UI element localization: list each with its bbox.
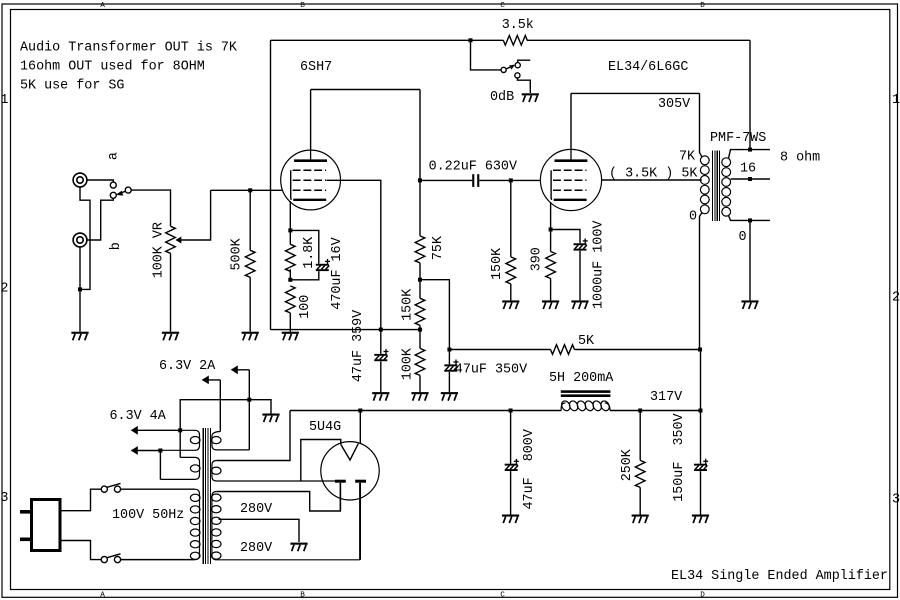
svg-text:C: C <box>500 2 505 10</box>
wire 5V top lead to B+ takeoff <box>217 411 290 461</box>
switch SW2 pole <box>501 67 506 72</box>
wire rail to C7 <box>700 411 702 464</box>
wire 6.3V 4A arrow lead B <box>132 450 161 452</box>
T2 heater 6.3V winding A <box>161 430 200 450</box>
wire rail down to 8ohm tap <box>749 40 751 150</box>
svg-text:47uF 359V: 47uF 359V <box>351 310 366 382</box>
wire C3 to ground <box>448 372 450 392</box>
node 8ohm tap <box>748 148 752 152</box>
wire switch feed <box>471 40 501 70</box>
svg-text:6.3V 4A: 6.3V 4A <box>110 409 167 424</box>
svg-text:100K: 100K <box>401 347 416 380</box>
wire 2A winding return up <box>248 400 250 450</box>
node cathode junction <box>288 228 292 232</box>
wire V2 screen to OPT tap <box>602 179 701 181</box>
svg-text:a: a <box>107 152 122 160</box>
node R3/C1 junction <box>288 278 292 282</box>
V2 envelope <box>540 149 601 210</box>
svg-text:250K: 250K <box>620 448 635 481</box>
T2 heater 6.3V winding B <box>160 457 199 479</box>
V2 grid-side bracket <box>550 170 553 200</box>
wire 6.3V 4A arrow lead A <box>132 429 181 431</box>
ground C6 <box>502 515 519 517</box>
wire throw down to ground <box>517 78 530 93</box>
wire rail to 250K <box>639 411 641 461</box>
wire 150K grid leak top <box>510 180 512 257</box>
switch SW1 pole <box>125 187 131 193</box>
svg-text:470uF 16V: 470uF 16V <box>330 237 345 309</box>
wire J2 shield down <box>79 247 81 332</box>
node C6 junction <box>509 409 513 413</box>
svg-text:0.22uF 630V: 0.22uF 630V <box>429 160 517 175</box>
svg-text:1: 1 <box>892 93 900 108</box>
wire C1 top branch <box>290 230 319 263</box>
node filament common <box>247 398 251 402</box>
svg-text:500K: 500K <box>230 237 245 270</box>
svg-text:1000uF 100V: 1000uF 100V <box>592 221 607 309</box>
switch SW4 contacts <box>101 557 107 563</box>
wire 5V lead to filament left <box>334 480 336 482</box>
wire secondary 0 to ground <box>749 220 751 300</box>
svg-text:317V: 317V <box>650 390 682 405</box>
V2 plate <box>555 159 588 162</box>
node fb/switch junction <box>469 38 473 42</box>
wire C1 bottom branch <box>290 271 319 280</box>
ground input jacks <box>71 332 88 334</box>
svg-text:5H 200mA: 5H 200mA <box>549 371 614 386</box>
svg-text:5K use for SG: 5K use for SG <box>20 79 124 94</box>
wire V2 plate up <box>570 93 572 149</box>
svg-text:5U4G: 5U4G <box>309 420 341 435</box>
node V2 cathode junction <box>549 228 553 232</box>
ground VR1 <box>162 332 179 334</box>
T2 primary 100V winding <box>121 489 200 559</box>
svg-text:B: B <box>300 2 305 10</box>
switch SW1 blade <box>118 191 126 194</box>
wire SW4 to primary <box>121 559 195 561</box>
V1 cathode <box>293 199 326 201</box>
wire filament right to B+ rail <box>359 411 361 444</box>
node V1 plate node <box>418 178 422 182</box>
wire B+ rail left of choke <box>290 410 561 412</box>
arrow 6.3V 2A terminal 2 <box>202 376 209 385</box>
node 4A junction <box>158 449 162 453</box>
wire grid node to EL34 <box>511 179 541 181</box>
svg-text:1.8K: 1.8K <box>302 236 317 269</box>
wire plate feed horizontal <box>311 89 420 91</box>
wire V1 cathode lead <box>289 201 291 230</box>
jack J1 (input a) <box>73 173 87 187</box>
wire winding B return up <box>159 451 161 480</box>
wire plug to switch SW3 <box>60 489 101 511</box>
wire VR1 wiper to grid line <box>181 190 210 240</box>
svg-text:A: A <box>100 2 105 10</box>
svg-text:390: 390 <box>530 247 545 271</box>
svg-text:16ohm OUT used for 8OHM: 16ohm OUT used for 8OHM <box>20 60 205 75</box>
wire R3 to lower node <box>289 269 291 280</box>
resistor R10 3.5k <box>503 36 527 46</box>
wire feedback top rail right <box>527 39 750 41</box>
node 16 tap <box>748 177 752 181</box>
arrow 6.3V 4A terminal A <box>131 426 138 435</box>
svg-text:1: 1 <box>0 93 8 108</box>
switch SW2 throw down <box>515 73 520 78</box>
switch SW4 blade <box>107 554 121 558</box>
wire V1 plate to top <box>310 90 312 151</box>
svg-text:150K: 150K <box>401 288 416 321</box>
wire throw up stub <box>518 60 531 62</box>
wire B+ rail right of choke <box>610 410 701 412</box>
svg-text:3: 3 <box>0 491 8 506</box>
potentiometer VR1 100K <box>166 226 176 253</box>
svg-text:6.3V 2A: 6.3V 2A <box>159 359 216 374</box>
transformer T2 core <box>203 428 210 564</box>
wire 150K top lead <box>419 280 421 299</box>
plug AC mains <box>32 500 61 551</box>
wire 75K to node <box>419 263 421 280</box>
wire C5 to ground <box>579 251 581 301</box>
svg-text:A: A <box>100 592 105 600</box>
wire 500K to ground <box>249 277 251 331</box>
node 5K/OPT-0 junction <box>698 348 702 352</box>
wire J1 shield to ground bus <box>80 187 90 290</box>
svg-text:( 3.5K ) 5K: ( 3.5K ) 5K <box>609 167 698 182</box>
resistor R7 100K <box>415 348 425 375</box>
svg-text:150uF 350V: 150uF 350V <box>672 413 687 501</box>
wire node to C3 <box>448 350 450 365</box>
node choke output 317V <box>638 409 642 413</box>
node rectifier output <box>358 409 362 413</box>
ground SW2 <box>522 93 539 95</box>
wire feedback top rail left <box>271 39 504 41</box>
tube V3 5U4G envelope <box>321 442 379 500</box>
wire 150K to fb node <box>419 325 421 329</box>
wire node right to B+ branch <box>420 280 449 350</box>
resistor R4 100 <box>285 286 295 313</box>
svg-text:Audio Transformer OUT is 7K: Audio Transformer OUT is 7K <box>20 41 238 56</box>
wire cathode to R9 <box>550 230 552 252</box>
capacitor C3 47uF 350V <box>444 364 457 366</box>
wire SW1 pole to VR1 top <box>131 190 170 226</box>
V1 grid-side bracket <box>290 170 293 200</box>
node J2 shield junction <box>78 287 82 291</box>
svg-text:C: C <box>500 592 505 600</box>
switch SW1 contact b <box>110 192 116 198</box>
svg-text:PMF-7WS: PMF-7WS <box>710 131 766 146</box>
node secondary 0 tap <box>748 218 752 222</box>
wire HV center tap to ground <box>219 519 300 542</box>
wire rail to C6 <box>510 411 512 464</box>
svg-text:305V: 305V <box>658 97 690 112</box>
T1 primary lead 7K <box>700 93 702 156</box>
capacitor C5 1000uF 100V <box>574 243 587 245</box>
svg-text:47uF 800V: 47uF 800V <box>522 429 537 509</box>
ground HV center tap <box>290 543 307 545</box>
wire R8 to ground <box>510 284 512 301</box>
wire V2 plate to OPT <box>571 92 700 94</box>
wire feedback vertical <box>270 40 272 329</box>
svg-text:5K: 5K <box>578 334 595 349</box>
node B+ screen node <box>447 348 451 352</box>
capacitor C1 470uF 16V <box>316 264 329 266</box>
V3 filament <box>341 444 359 460</box>
T1 secondary winding <box>722 158 731 167</box>
resistor R12 250K <box>635 460 645 487</box>
wire HV bottom lead to plate 2 <box>359 483 361 560</box>
svg-text:47uF 350V: 47uF 350V <box>455 362 527 377</box>
wire 100K to ground <box>419 375 421 392</box>
V3 plate 1 <box>335 480 346 483</box>
svg-text:D: D <box>700 2 705 10</box>
svg-text:2: 2 <box>0 281 8 296</box>
wire 6.3V line A <box>203 379 221 381</box>
switch SW2 throw up <box>515 63 520 68</box>
T1 primary winding <box>700 156 709 165</box>
T2 rectifier filament winding 5V <box>212 461 336 482</box>
svg-text:75K: 75K <box>431 235 446 260</box>
svg-text:280V: 280V <box>240 541 272 556</box>
arrow 6.3V 2A terminal 1 <box>231 365 238 374</box>
wire heater bus down <box>179 430 181 457</box>
switch SW3 contacts <box>101 486 107 492</box>
capacitor C4 0.22uF 630V <box>472 174 474 187</box>
jack J2 (input b) <box>73 233 87 247</box>
resistor R8 150K <box>506 257 516 284</box>
node feedback divider junction <box>418 328 422 332</box>
switch SW1 contact a <box>110 182 116 188</box>
wire OPT-0 down to rail <box>700 350 702 411</box>
node grid/500K junction <box>248 188 252 192</box>
ground R8 <box>502 300 519 302</box>
wire plate2 stub <box>359 483 361 560</box>
ground 500K <box>242 332 259 334</box>
resistor R2 500K <box>245 250 255 277</box>
wire B+ node to 5K <box>449 349 550 351</box>
T1 secondary bottom lead 0 <box>728 215 770 220</box>
node EL34 grid node <box>509 178 513 182</box>
wire cathode to R3 <box>289 230 291 244</box>
wire 5K to OPT return <box>575 349 701 351</box>
ground secondary 0 <box>741 300 758 302</box>
wire 250K to ground <box>639 487 641 514</box>
wire plate feed down <box>419 90 421 181</box>
wire C7 to ground <box>700 471 702 514</box>
resistor R5 75K <box>415 236 425 263</box>
wire 100K top lead <box>419 330 421 349</box>
resistor R11 5K <box>551 345 575 355</box>
V2 cathode <box>554 199 587 201</box>
wire V1 screen to decoupling <box>327 180 381 329</box>
ground R4 <box>282 332 299 334</box>
wire J1 to switch contact <box>87 180 113 182</box>
wire C6 to ground <box>510 471 512 514</box>
T1 primary 5K tap wire <box>700 179 703 181</box>
wire grid line to 6SH7 G1 <box>211 189 283 191</box>
svg-text:D: D <box>700 592 705 600</box>
svg-text:0: 0 <box>739 230 747 245</box>
ground 100K <box>411 392 428 394</box>
T1 primary lead 0 <box>700 213 702 350</box>
wire HV top lead to plate 1 <box>217 483 341 511</box>
svg-text:0dB: 0dB <box>490 90 514 105</box>
wire 2A top lead up <box>219 380 221 432</box>
svg-text:0: 0 <box>689 210 697 225</box>
T1 secondary top lead 8ohm <box>728 150 770 159</box>
wire cathode to C5 <box>551 230 580 244</box>
V2 grids G3 G2 G1 <box>553 169 587 171</box>
node screen/feedback junction <box>379 328 383 332</box>
wire 6.3V 2A arrow lead <box>232 369 250 371</box>
wire feedback horizontal <box>271 329 421 331</box>
resistor R9 390 <box>546 252 556 279</box>
wire J2 to switch contact <box>87 198 113 240</box>
ground 250K <box>632 515 649 517</box>
wire R9 to ground <box>550 279 552 301</box>
svg-text:100V 50Hz: 100V 50Hz <box>112 508 184 523</box>
capacitor C6 47uF 800V <box>505 464 518 466</box>
wire plate to C4 <box>420 179 472 181</box>
wire R4 to ground <box>289 313 291 332</box>
switch SW2 blade <box>506 67 511 69</box>
wire 500K top lead <box>249 190 251 250</box>
wire plate node to 75K <box>419 180 421 236</box>
wire filament left feed <box>301 440 341 482</box>
T1 core <box>712 151 719 222</box>
ground C5 <box>571 300 588 302</box>
svg-text:B: B <box>300 592 305 600</box>
wire filament common bus <box>180 400 271 431</box>
wire C4 to grid node <box>479 179 511 181</box>
V1 envelope <box>281 150 341 210</box>
wire C2 to ground <box>380 361 382 392</box>
wire VR1 bottom to ground <box>170 253 172 331</box>
wire 2A lead down <box>248 370 250 400</box>
node OPT feed junction <box>699 409 703 413</box>
svg-text:280V: 280V <box>240 502 272 517</box>
T2 heater 2A winding <box>212 432 249 450</box>
svg-text:EL34 Single Ended Amplifier: EL34 Single Ended Amplifier <box>671 569 888 584</box>
ground C2 <box>372 392 389 394</box>
svg-text:8 ohm: 8 ohm <box>780 151 820 166</box>
resistor R3 1.8K <box>285 244 295 271</box>
choke CH1 5H 200mA <box>561 390 611 393</box>
V3 plate 2 <box>355 480 366 483</box>
svg-text:b: b <box>109 242 124 250</box>
capacitor C7 150uF 350V <box>694 464 707 466</box>
svg-text:3.5k: 3.5k <box>502 18 534 33</box>
svg-text:16: 16 <box>740 162 756 177</box>
wire V2 cathode lead <box>550 202 552 230</box>
node heater bus junction <box>178 428 182 432</box>
arrow 6.3V 4A terminal B <box>131 446 138 455</box>
ground filament common <box>262 414 279 416</box>
svg-text:7K: 7K <box>679 150 696 165</box>
T2 HV secondary 280V-0-280V <box>212 492 360 560</box>
svg-text:2: 2 <box>892 291 900 306</box>
svg-text:100: 100 <box>298 295 313 319</box>
ground C3 <box>441 392 458 394</box>
wire screen cap lead <box>380 330 382 354</box>
svg-text:100K VR: 100K VR <box>152 222 167 278</box>
resistor R6 150K <box>415 298 425 325</box>
capacitor C2 47uF 359V <box>374 354 387 356</box>
ground C7 <box>692 515 709 517</box>
wire plug to switch SW4 <box>60 541 101 560</box>
wire SW3 to primary <box>121 488 195 490</box>
V1 grids G3 G2 G1 <box>293 169 327 171</box>
wire plate1 stub <box>339 483 341 511</box>
switch SW3 blade <box>107 483 121 487</box>
wire secondary 16 tap <box>731 178 770 180</box>
V1 plate <box>294 159 327 162</box>
node 75K/150K junction <box>418 278 422 282</box>
ground R9 <box>542 300 559 302</box>
VR1 wiper arrow <box>175 237 181 244</box>
svg-text:EL34/6L6GC: EL34/6L6GC <box>608 60 688 75</box>
svg-text:3: 3 <box>892 492 900 507</box>
svg-text:150K: 150K <box>490 247 505 280</box>
svg-text:6SH7: 6SH7 <box>300 60 332 75</box>
